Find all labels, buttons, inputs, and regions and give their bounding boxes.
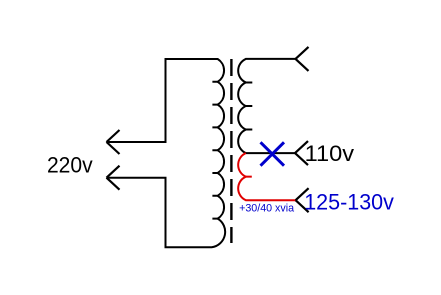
svg-text:+30/40 xvia: +30/40 xvia xyxy=(239,203,294,215)
svg-text:220v: 220v xyxy=(47,152,93,177)
svg-text:125-130v: 125-130v xyxy=(304,190,394,215)
svg-text:110v: 110v xyxy=(305,141,354,166)
